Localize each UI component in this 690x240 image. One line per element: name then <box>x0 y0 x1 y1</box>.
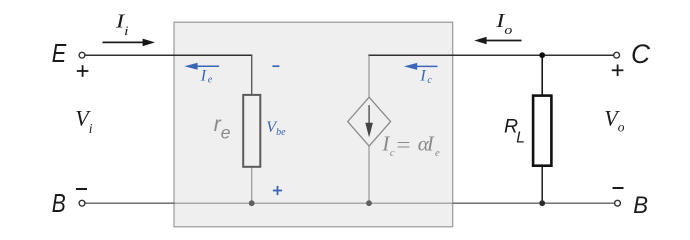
svg-text:C: C <box>631 39 650 69</box>
polarity - at V_be top (blue) <box>272 65 279 67</box>
wire: E terminal to corner above r_e <box>85 54 252 56</box>
svg-text:c: c <box>390 148 395 159</box>
svg-text:I: I <box>426 131 435 155</box>
polarity + at V_be bottom (blue) <box>273 186 282 195</box>
transistor model box <box>174 22 453 227</box>
svg-text:Io: Io <box>495 9 512 38</box>
svg-text:Ii: Ii <box>115 10 129 39</box>
arrow: output current I_o (points left) <box>474 37 521 45</box>
svg-text:E: E <box>52 38 67 68</box>
terminal E (open circle) <box>79 52 85 58</box>
terminal B left (open circle) <box>79 200 85 206</box>
resistor r_e <box>243 95 260 167</box>
junction node: current source / bottom rail <box>366 200 372 206</box>
wire: current source bottom to bottom rail <box>368 146 370 203</box>
value label: I_c = alpha*I_e at current source <box>381 131 440 159</box>
svg-text:B: B <box>52 190 66 218</box>
polarity - at B left <box>76 188 87 190</box>
svg-text:e: e <box>435 148 440 159</box>
svg-text:Vo: Vo <box>604 106 624 135</box>
polarity - at B right <box>613 187 624 189</box>
dependent current source (diamond) <box>348 97 391 146</box>
polarity + at E <box>77 65 89 77</box>
polarity + at C <box>612 65 624 77</box>
arrow: input current I_i (points right) <box>103 39 156 47</box>
svg-text:RL: RL <box>504 116 525 147</box>
wire: top rail from source corner to C terminal <box>368 54 613 56</box>
wire: bottom rail, box edge to right B <box>453 202 615 204</box>
arrow: collector current I_c (blue, points left) <box>404 63 438 70</box>
wire: r_e bottom to bottom rail <box>251 167 253 203</box>
wire: top rail junction down to R_L top <box>541 55 543 95</box>
wire: bottom rail, B to box edge <box>85 202 175 204</box>
terminal C (open circle) <box>614 52 620 58</box>
svg-text:B: B <box>633 192 648 219</box>
terminal B right (open circle) <box>615 200 621 206</box>
svg-text:Vi: Vi <box>75 106 92 137</box>
junction node: R_L / top rail <box>539 52 545 58</box>
wire: R_L bottom to bottom rail <box>541 167 543 204</box>
wire: corner down to r_e top <box>251 55 253 95</box>
svg-text:=: = <box>396 133 410 157</box>
arrow: emitter current I_e (blue, points left) <box>184 63 219 70</box>
wire: top rail down to current source top <box>368 56 370 98</box>
current source arrow (down) <box>365 105 373 137</box>
junction node: R_L / bottom rail <box>539 200 545 206</box>
resistor R_L <box>533 96 551 166</box>
junction node: r_e / bottom rail <box>249 200 255 206</box>
wire: bottom rail inside box <box>175 202 453 204</box>
